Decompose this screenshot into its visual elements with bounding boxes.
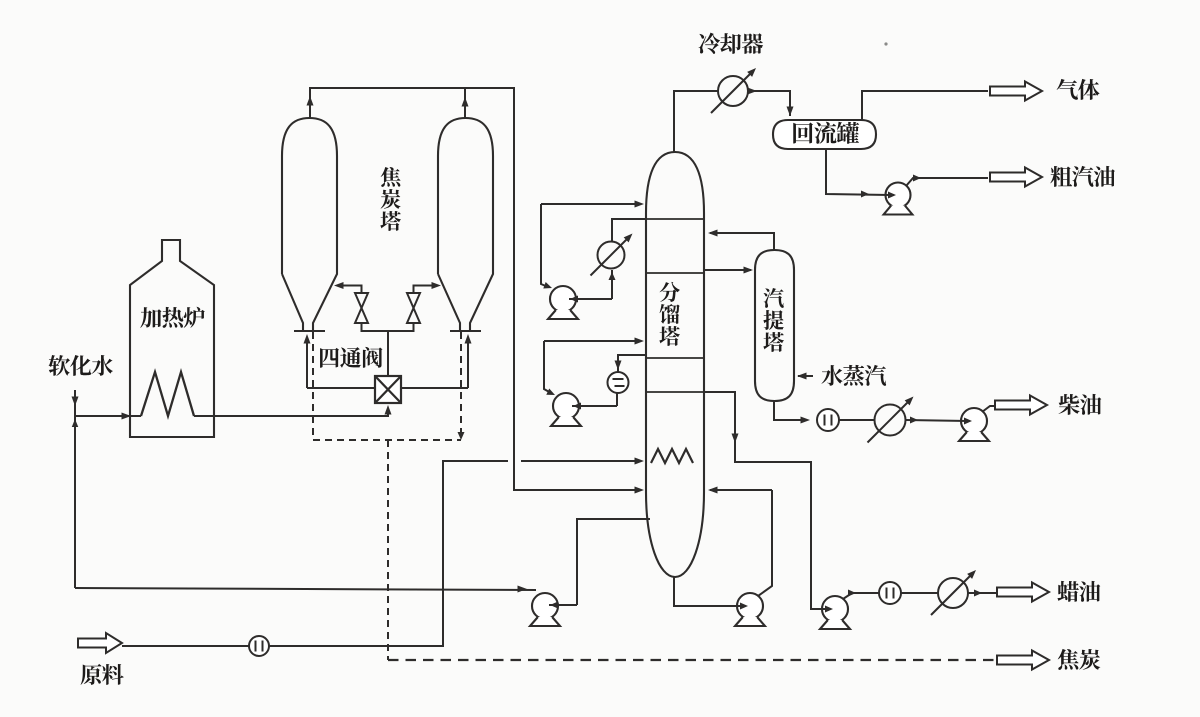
wire exchanger to wax outlet [968, 592, 997, 594]
wire pumparound2 left riser [544, 341, 551, 393]
flow meter on feed line [249, 636, 269, 656]
wire pumparound1 left riser [541, 204, 548, 287]
wire right tower bottom riser [467, 337, 469, 388]
arrow up below junction [72, 419, 79, 427]
scan speck [884, 42, 887, 45]
label 焦炭 [1058, 649, 1101, 670]
label 水蒸汽 [821, 365, 886, 386]
wire tower to stripper inlet [704, 269, 751, 271]
arrow on diesel line [801, 417, 811, 424]
wire meter to tower drawoff y=355 [618, 355, 646, 372]
arrow down on water line [72, 397, 79, 407]
arrow into BR center [825, 606, 833, 613]
arrow into P1 center [570, 296, 578, 303]
outlet hollow arrow 气体 [990, 82, 1042, 101]
cooler 冷却器 [711, 71, 753, 113]
arrow after diesel exchanger [910, 417, 918, 424]
wire exchanger to pump diesel [906, 420, 968, 421]
wire pumparound2 return to tower [544, 340, 640, 342]
wire meter to exchanger diesel [839, 419, 875, 421]
wire feed line to fractionator [122, 461, 508, 646]
wire header drop to 4-way valve top [387, 331, 389, 376]
arrow feed into tower y=461 [635, 458, 645, 465]
wire furnace outlet to 4-way valve [194, 409, 388, 416]
arrow up into right tower [465, 334, 472, 344]
arrow left into tower y=490 [708, 487, 718, 494]
wire dashed coke header y=440 [313, 439, 461, 441]
wire steam stub [798, 375, 813, 377]
flow meter wax line [879, 582, 901, 604]
wire right valve to right tower cone [414, 286, 439, 294]
wire water junction to furnace coil [75, 415, 141, 417]
heat exchanger wax line [931, 573, 973, 615]
pump BR wax oil [822, 596, 848, 622]
reflux drum 回流罐 vessel [773, 120, 876, 149]
label 分馏塔 [659, 282, 680, 346]
arrow right into right tower cone [432, 282, 442, 289]
valve right bowtie [407, 293, 420, 323]
label 气体 [1057, 79, 1100, 100]
fractionator tray lines [646, 219, 704, 392]
label 柴油 [1059, 394, 1102, 415]
wire BL discharge to riser [549, 604, 577, 606]
arrow into tower y=341 [635, 338, 645, 345]
wire dashed coke line y=660 [388, 659, 995, 661]
arrow down into drum [787, 107, 794, 117]
wire 4-way valve left branch [307, 387, 375, 389]
arrow steam into stripper [797, 373, 807, 380]
arrow into furnace [122, 413, 132, 420]
wire drum bottom to gasoline pump [826, 149, 894, 195]
feedstock inlet hollow arrow 原料 [78, 633, 122, 653]
arrow into pump P2 [546, 388, 556, 398]
furnace coil zigzag [141, 372, 194, 416]
wire right tower overhead riser [464, 88, 466, 118]
heating furnace 加热炉 vessel [130, 240, 214, 437]
label 蜡油 [1057, 581, 1100, 602]
valve left bowtie [355, 293, 368, 323]
stripping tower 汽提塔 vessel [755, 250, 794, 401]
wire diesel pump discharge [982, 406, 995, 412]
wire pumparound1 return to tower top [541, 203, 640, 205]
wire P2 suction riser [616, 393, 618, 406]
label 冷却器 [699, 33, 764, 54]
arrow into pump BL [518, 586, 528, 593]
outlet hollow arrow 蜡油 [997, 583, 1049, 602]
heat exchanger diesel line [868, 400, 911, 443]
wire 4-way valve right branch [401, 387, 468, 389]
arrow into P2 center [573, 403, 581, 410]
wire tower bottoms to pump BM [674, 577, 740, 606]
fractionator internal zigzag coil [651, 449, 693, 463]
wire dashed right tower coke drop [460, 332, 462, 437]
wire riser to exchanger E1 [611, 270, 613, 299]
arrow left into left tower cone [334, 282, 344, 289]
outlet hollow arrow 焦炭 [997, 651, 1049, 670]
label 汽提塔 [763, 288, 784, 352]
arrow into diesel pump center [964, 418, 972, 425]
pump P1 top pumparound [550, 286, 576, 312]
heat exchanger E1 [591, 237, 630, 276]
label 四通阀 [320, 347, 382, 368]
pump BM bottom-middle [737, 593, 763, 619]
arrow into tower dome y=204 [635, 201, 645, 208]
arrow down dashed right [458, 432, 465, 440]
outlet hollow arrow 粗汽油 [990, 168, 1042, 187]
wire dashed left tower coke drop [312, 332, 314, 440]
wire BM discharge into tower right y=490 [710, 489, 772, 491]
pump P2 [553, 393, 579, 419]
outlet hollow arrow 柴油 [995, 396, 1047, 415]
wire BR discharge [843, 593, 879, 599]
wire E1 top to tower drawoff y=219 [612, 219, 646, 241]
label 回流罐 [793, 122, 859, 144]
coke tower 焦炭塔 left vessel [282, 118, 337, 331]
wire meter to exchanger wax [901, 592, 938, 594]
pump diesel [961, 408, 987, 434]
wire BM discharge riser [758, 490, 772, 596]
pump gasoline 粗汽油 [886, 183, 911, 208]
wire drum to gas outlet [862, 91, 988, 120]
arrow on gasoline discharge [913, 175, 921, 182]
four-way valve 四通阀 [375, 376, 401, 403]
label 粗汽油 [1050, 166, 1115, 187]
arrow up into E1 [609, 272, 616, 280]
arrow into fractionator at y=490 [635, 487, 645, 494]
wire left valve to left tower cone [337, 286, 362, 294]
wire softened-water vertical x=75 [74, 390, 76, 588]
wire wax drawoff tower y=392 to pump BR [704, 392, 830, 609]
arrow into BL center [550, 602, 558, 609]
arrow left into tower y=233 [708, 230, 718, 237]
label 软化水 (softened water) [49, 355, 113, 376]
wire valve bottom header [362, 323, 414, 331]
wire cooler to reflux drum [748, 91, 790, 116]
arrow on BR discharge [848, 590, 856, 597]
arrow on gasoline suction [861, 191, 869, 198]
wire feed line into tower (after crossing) [521, 460, 640, 462]
arrow after cooler [748, 88, 758, 95]
arrow into BM center [740, 603, 748, 610]
pump BL bottom-left [532, 593, 558, 619]
arrow up left riser [307, 96, 314, 106]
arrow into pump P1 [543, 282, 553, 291]
wire stripper top to tower [710, 233, 774, 250]
wire BL riser into tower bottom y=519 [577, 519, 650, 605]
wire overhead header down to fractionator feed y=490 [309, 88, 640, 490]
flow meter diesel line [817, 409, 839, 431]
label 加热炉 [140, 307, 204, 328]
fractionation tower 分馏塔 vessel [646, 152, 704, 577]
wire left tower overhead riser [309, 88, 311, 118]
arrow into stripper [744, 267, 754, 274]
wire left tower bottom riser [306, 337, 308, 388]
arrow down into meter [615, 361, 622, 371]
arrow into gasoline pump center [888, 192, 896, 199]
wire long suction line y=588 [75, 588, 536, 590]
label 焦炭塔 [380, 167, 401, 231]
wire tower top to cooler [674, 91, 718, 152]
wire dashed coke drop to bottom [387, 440, 389, 660]
arrow up into left tower [304, 334, 311, 344]
wire stripper bottom to diesel line [774, 401, 806, 420]
wire P1 suction from exchanger leg [569, 298, 612, 300]
coke tower right vessel [438, 118, 493, 331]
arrow up right riser [462, 97, 469, 107]
arrow down on wax riser [732, 434, 739, 444]
wire P2 suction [572, 405, 617, 407]
flow meter on pumparound2 [608, 372, 629, 393]
arrow up into 4-way valve [385, 405, 392, 415]
wire gasoline pump discharge [906, 178, 988, 186]
label 原料 [81, 664, 124, 685]
arrow before wax outlet [974, 590, 982, 597]
